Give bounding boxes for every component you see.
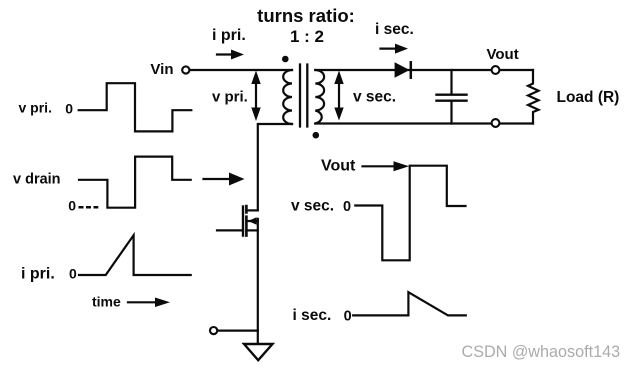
- svg-text:i sec.: i sec.: [375, 21, 414, 38]
- svg-text:v pri.: v pri.: [19, 100, 52, 116]
- svg-text:Load (R): Load (R): [557, 89, 620, 106]
- svg-text:i pri.: i pri.: [212, 27, 246, 44]
- svg-text:0: 0: [69, 266, 77, 282]
- svg-text:Vin: Vin: [150, 61, 173, 78]
- svg-text:0: 0: [68, 197, 76, 213]
- svg-text:v drain: v drain: [13, 171, 61, 187]
- svg-text:0: 0: [343, 199, 351, 215]
- svg-text:time: time: [92, 293, 121, 309]
- svg-text:0: 0: [65, 101, 73, 117]
- svg-text:i pri.: i pri.: [21, 266, 55, 283]
- svg-text:1 : 2: 1 : 2: [290, 27, 324, 46]
- svg-text:Vout: Vout: [487, 46, 519, 63]
- svg-text:v sec.: v sec.: [353, 89, 396, 106]
- svg-text:CSDN @whaosoft143: CSDN @whaosoft143: [462, 343, 621, 361]
- svg-text:turns ratio:: turns ratio:: [257, 5, 355, 26]
- svg-text:v pri.: v pri.: [212, 89, 248, 106]
- svg-text:v sec.: v sec.: [291, 197, 334, 214]
- svg-text:i sec.: i sec.: [293, 307, 332, 324]
- svg-text:0: 0: [344, 308, 352, 324]
- svg-text:Vout: Vout: [321, 158, 356, 175]
